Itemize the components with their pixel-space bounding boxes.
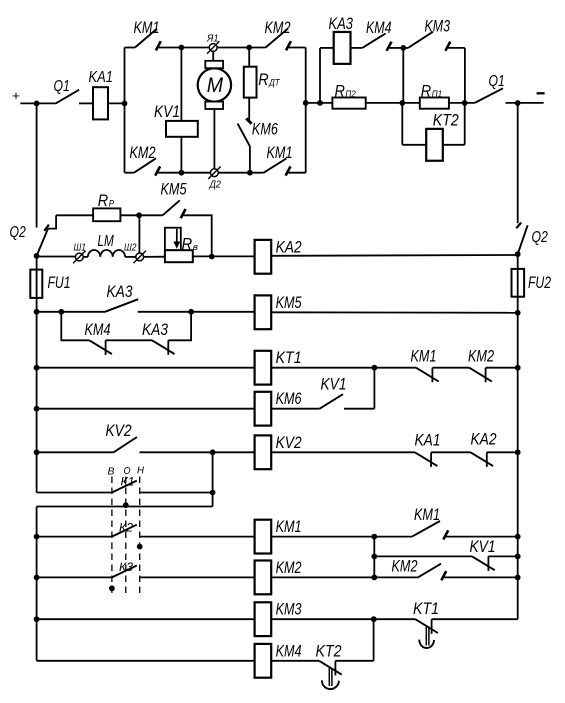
svg-text:KA1: KA1 (415, 431, 441, 450)
svg-text:в: в (193, 242, 198, 253)
svg-text:К3: К3 (119, 560, 133, 574)
svg-text:KM6: KM6 (276, 389, 302, 408)
svg-text:FU1: FU1 (48, 273, 71, 292)
svg-text:KM1: KM1 (276, 517, 302, 536)
svg-text:KM4: KM4 (366, 18, 392, 37)
svg-text:KT2: KT2 (433, 111, 459, 130)
svg-text:П1: П1 (432, 89, 442, 100)
svg-text:Q2: Q2 (10, 224, 26, 241)
svg-text:KM2: KM2 (130, 143, 156, 162)
svg-text:Д2: Д2 (209, 179, 222, 191)
svg-text:П2: П2 (345, 89, 356, 100)
svg-text:KV2: KV2 (276, 433, 302, 452)
svg-text:KM3: KM3 (425, 17, 451, 36)
svg-text:KM6: KM6 (252, 119, 278, 138)
svg-text:KM1: KM1 (134, 18, 160, 37)
svg-text:KT1: KT1 (413, 599, 439, 618)
svg-text:+: + (12, 88, 20, 103)
svg-text:В: В (108, 466, 115, 478)
svg-text:R: R (421, 82, 431, 100)
svg-text:Ш2: Ш2 (124, 241, 137, 253)
svg-text:KA2: KA2 (471, 430, 497, 449)
svg-text:KT1: KT1 (276, 348, 302, 367)
svg-text:KM1: KM1 (411, 347, 437, 366)
svg-text:KA3: KA3 (142, 320, 168, 339)
svg-text:ДТ: ДТ (268, 78, 280, 89)
svg-text:KM4: KM4 (276, 641, 302, 660)
svg-text:KV1: KV1 (470, 537, 496, 556)
svg-text:KM4: KM4 (85, 320, 111, 339)
svg-text:Q1: Q1 (489, 73, 505, 90)
svg-text:KM3: KM3 (276, 600, 302, 619)
svg-text:KM5: KM5 (161, 180, 187, 199)
svg-text:Q2: Q2 (532, 229, 548, 246)
svg-text:Ш1: Ш1 (74, 241, 87, 253)
svg-text:KM1: KM1 (267, 143, 293, 162)
svg-text:R: R (258, 71, 268, 89)
svg-text:M: M (207, 74, 224, 97)
svg-text:К1: К1 (121, 474, 135, 488)
svg-text:KM1: KM1 (414, 505, 440, 524)
svg-text:К2: К2 (119, 520, 133, 534)
svg-text:KM5: KM5 (276, 293, 302, 312)
svg-text:R: R (182, 235, 193, 254)
svg-text:R: R (335, 82, 345, 100)
svg-text:KA2: KA2 (276, 237, 302, 256)
svg-text:KA3: KA3 (329, 14, 354, 33)
svg-text:Р: Р (109, 198, 115, 209)
svg-text:KV1: KV1 (321, 375, 347, 394)
svg-text:Q1: Q1 (54, 78, 70, 95)
svg-text:KM2: KM2 (276, 558, 302, 577)
svg-text:KT2: KT2 (316, 641, 342, 660)
svg-text:KV1: KV1 (154, 102, 180, 121)
svg-text:R: R (98, 192, 108, 210)
svg-text:KA3: KA3 (107, 282, 133, 301)
svg-text:KV2: KV2 (106, 421, 132, 440)
svg-text:KA1: KA1 (89, 69, 113, 86)
svg-text:LM: LM (98, 233, 115, 250)
svg-text:KM2: KM2 (468, 347, 494, 366)
svg-text:KM2: KM2 (265, 18, 291, 37)
svg-text:Я1: Я1 (206, 33, 218, 45)
svg-text:KM2: KM2 (392, 556, 418, 575)
svg-text:Н: Н (137, 465, 144, 477)
svg-text:FU2: FU2 (528, 273, 551, 292)
